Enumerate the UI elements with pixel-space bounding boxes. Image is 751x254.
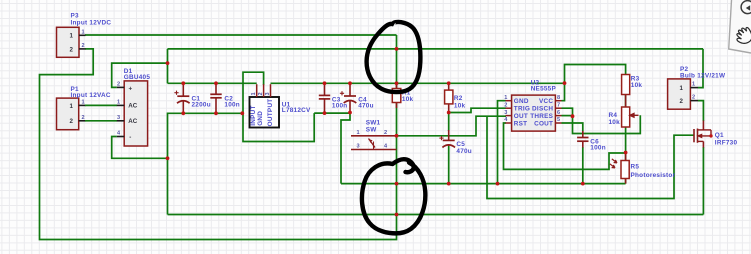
- U1 pin 3 OUTPUT stub: [270, 84, 272, 97]
- resistor R1 leads: [396, 83, 398, 108]
- wire input rail to U1: [168, 82, 257, 84]
- switch SW1 pole 3-4 line: [351, 149, 397, 151]
- P1 pin 2 stub: [79, 120, 86, 122]
- svg-text:AC: AC: [128, 118, 137, 125]
- svg-text:470u: 470u: [456, 148, 472, 155]
- junction D1 minus node: [166, 156, 170, 160]
- wire SW1 pin2 to 555 OUT: [397, 116, 507, 136]
- svg-text:7: 7: [557, 102, 560, 108]
- resistor R5 leads: [625, 153, 627, 184]
- junction U1 gnd rail: [240, 111, 244, 115]
- wire rail jog to R3: [565, 65, 626, 84]
- svg-text:NE555P: NE555P: [531, 85, 557, 92]
- U2 left pin 3 stub: [506, 115, 512, 117]
- icon circle with arrow: [741, 1, 751, 14]
- junction R2 bottom C5: [447, 111, 451, 115]
- capacitor C5 leads: [448, 130, 450, 146]
- D1 pin 1 stub: [117, 104, 124, 106]
- svg-text:1: 1: [692, 82, 695, 88]
- wire gnd rail C1 C2: [168, 113, 243, 214]
- svg-text:+: +: [129, 85, 133, 92]
- switch SW1 pole 1-2 line: [351, 135, 397, 137]
- wire P2 pin2 to Q1 drain: [698, 101, 703, 121]
- wire 555 OUT to Q1 gate: [487, 116, 694, 198]
- P1 pin 1 stub: [79, 104, 86, 106]
- Q1 drain stub: [698, 129, 712, 131]
- wire C6 bottom to rail A: [582, 147, 584, 184]
- svg-text:5: 5: [557, 117, 560, 123]
- wire C4 jog to rail A: [341, 113, 350, 184]
- wire P3 pin1 to R1 column: [85, 34, 397, 36]
- D1 pin 3 stub: [117, 120, 124, 122]
- hand-drawn circle annotation top: [367, 22, 421, 92]
- wire rail A: [341, 183, 626, 185]
- C2 plate lower: [210, 97, 221, 99]
- svg-text:2: 2: [70, 118, 74, 125]
- switch SW1 lever: [369, 139, 376, 148]
- C6 plate upper: [577, 137, 588, 139]
- junction rail A C6: [581, 182, 585, 186]
- svg-text:100n: 100n: [332, 103, 348, 110]
- svg-text:10k: 10k: [454, 102, 466, 109]
- svg-text:SW1: SW1: [366, 120, 381, 127]
- hand-drawn circle annotation bottom: [362, 159, 425, 233]
- svg-text:1: 1: [82, 100, 85, 106]
- wire U1 output rail: [271, 82, 565, 84]
- wire THRES stub: [562, 115, 573, 117]
- wire 555 GND to rail A: [498, 101, 507, 184]
- wire 12V top rail: [168, 48, 704, 50]
- junction SW1 pin2 R1: [395, 134, 399, 138]
- junction C4 top: [348, 81, 352, 85]
- junction C1 bottom: [181, 111, 185, 115]
- wire P1 pin1 to D1: [85, 104, 117, 106]
- svg-text:VCC: VCC: [539, 98, 553, 105]
- switch SW1 link dash: [373, 142, 375, 150]
- junction C1 top: [181, 81, 185, 85]
- wire R1 column vertical: [396, 35, 398, 215]
- C5 top plate: [443, 139, 455, 141]
- D1 pin 4 stub: [117, 136, 124, 138]
- junction R4 R5 RST: [624, 151, 628, 155]
- svg-text:OUT: OUT: [514, 113, 528, 120]
- C5 curved plate: [442, 145, 455, 148]
- wire VCC up to rail: [562, 83, 565, 101]
- svg-text:1: 1: [357, 130, 360, 136]
- svg-text:2: 2: [258, 92, 264, 95]
- svg-text:GND: GND: [514, 98, 529, 105]
- svg-text:Photoresistor: Photoresistor: [631, 172, 676, 179]
- junction C3 top: [323, 81, 327, 85]
- connector P3 body: [57, 27, 80, 57]
- C1 plus sign: [174, 92, 178, 94]
- resistor R2 leads: [448, 83, 450, 112]
- svg-text:1: 1: [117, 100, 120, 106]
- capacitor C6 leads: [582, 131, 584, 148]
- svg-text:IRF730: IRF730: [715, 139, 738, 146]
- Q1 source stub: [698, 140, 704, 142]
- wire rail C: [168, 214, 704, 216]
- Q1 bulk drop: [710, 130, 712, 136]
- svg-text:R5: R5: [631, 163, 640, 170]
- transistor Q1 gate bar: [693, 129, 695, 142]
- wire D1 minus to gnd node: [112, 137, 168, 159]
- svg-text:SW: SW: [366, 127, 378, 134]
- P3 pin 1 stub: [79, 34, 86, 36]
- U1 pin 2 GND stub: [263, 84, 265, 97]
- P2 pin 1 stub: [690, 87, 698, 89]
- svg-text:Bulb 12V/21W: Bulb 12V/21W: [680, 72, 726, 79]
- wire C5 bottom to rail A: [448, 146, 450, 184]
- C6 plate lower: [577, 140, 588, 142]
- svg-text:100n: 100n: [224, 102, 240, 109]
- svg-text:2: 2: [680, 98, 684, 105]
- svg-text:TRIG: TRIG: [514, 106, 530, 113]
- wire U1 gnd loop under box: [243, 72, 314, 141]
- C1 top plate: [177, 95, 189, 97]
- svg-text:COUT: COUT: [534, 120, 553, 127]
- svg-text:8: 8: [557, 95, 560, 101]
- svg-text:P3: P3: [71, 13, 80, 20]
- svg-text:3: 3: [504, 110, 507, 116]
- wire P1 pin2 to D1: [85, 120, 117, 122]
- Q1 bulk junction: [709, 134, 712, 137]
- C4 plus sign vertical: [341, 91, 343, 95]
- C3 plate upper: [319, 94, 330, 96]
- Q1 channel bar: [697, 129, 699, 143]
- P2 pin 2 stub: [690, 100, 698, 102]
- Q1 drain lead: [702, 121, 704, 130]
- svg-text:3: 3: [357, 144, 360, 150]
- wire R2 bottom to TRIG: [449, 108, 506, 112]
- U2 right pin 8 stub: [555, 100, 561, 102]
- wire DISCH to THRES node: [562, 108, 573, 116]
- toolbar panel top right: [729, 0, 751, 53]
- svg-text:2: 2: [82, 43, 85, 49]
- resistor R3 body: [622, 75, 630, 95]
- C5 plus sign: [439, 137, 443, 139]
- svg-text:2: 2: [504, 102, 507, 108]
- wire THRES node to R4 wiper: [573, 115, 641, 133]
- svg-text:THRES: THRES: [530, 113, 553, 120]
- U1 pin 1 INPUT stub: [256, 84, 258, 97]
- C3 plate lower: [319, 98, 330, 100]
- wire RST to R5 top: [504, 123, 626, 169]
- switch SW1 lever arrow: [369, 139, 373, 143]
- junction C4 bottom: [348, 111, 352, 115]
- Q1 bulk line with arrow: [698, 135, 712, 138]
- resistor R3 leads: [625, 95, 627, 108]
- junction rail C x396: [395, 213, 399, 217]
- resistor R2 body: [445, 90, 453, 104]
- svg-text:Q1: Q1: [715, 132, 724, 139]
- svg-text:AC: AC: [128, 103, 137, 110]
- junction rail A x396: [395, 182, 399, 186]
- capacitor C1 leads: [182, 83, 184, 113]
- U2 right pin 5 stub: [555, 122, 561, 124]
- wire Q1 source to rail C: [702, 147, 704, 215]
- svg-text:2: 2: [692, 95, 695, 101]
- svg-text:GND: GND: [257, 111, 264, 126]
- wire P3 pin2 big loop: [40, 49, 397, 240]
- icon hand pan tool: [733, 25, 751, 47]
- C4 plus sign: [340, 92, 344, 94]
- svg-text:DISCH: DISCH: [532, 106, 553, 113]
- C4 top plate: [344, 95, 356, 97]
- junction R2 top: [447, 81, 451, 85]
- C5 plus sign vertical: [441, 136, 443, 140]
- svg-text:100n: 100n: [590, 145, 606, 152]
- svg-text:1: 1: [680, 85, 684, 92]
- timer IC U2 body: [512, 95, 556, 131]
- svg-text:1: 1: [504, 95, 507, 101]
- D1 pin 2 stub: [117, 86, 124, 88]
- R5 light arrow upper: [612, 159, 617, 163]
- svg-text:2: 2: [117, 82, 120, 88]
- R4 wiper arrow: [630, 113, 639, 117]
- junction rail A C5: [447, 182, 451, 186]
- svg-text:10k: 10k: [402, 96, 414, 103]
- svg-text:-: -: [129, 134, 131, 141]
- U2 left pin 2 stub: [506, 107, 512, 109]
- wire R3 R4 R5 column: [625, 75, 627, 184]
- junction C3 bottom: [323, 111, 327, 115]
- svg-text:GBU405: GBU405: [124, 74, 151, 81]
- wire node x167 drop: [167, 49, 169, 83]
- bridge rectifier D1 body: [124, 81, 147, 146]
- U2 left pin 4 stub: [506, 122, 512, 124]
- svg-text:1: 1: [70, 33, 74, 40]
- resistor R1 body: [392, 89, 401, 103]
- C1 curved plate: [177, 101, 190, 104]
- capacitor C2 leads: [215, 83, 217, 113]
- svg-text:R2: R2: [454, 95, 463, 102]
- wire D1 plus to node: [112, 63, 168, 87]
- svg-text:Input 12VDC: Input 12VDC: [71, 20, 112, 27]
- junction VCC rail: [563, 81, 567, 85]
- junction C2 top: [214, 81, 218, 85]
- capacitor C3 leads: [324, 83, 326, 113]
- C2 plate upper: [210, 93, 221, 95]
- photoresistor R5 body: [621, 161, 629, 179]
- R5 light arrow lower: [610, 164, 615, 168]
- wire gnd rail C3 C4: [314, 112, 350, 114]
- svg-text:2: 2: [384, 130, 387, 136]
- svg-text:3: 3: [117, 115, 120, 121]
- svg-text:3: 3: [265, 92, 271, 95]
- svg-text:6: 6: [557, 110, 560, 116]
- C4 curved plate: [344, 101, 357, 104]
- wire top rail down to P2 pin1: [698, 49, 703, 88]
- junction R1 top: [395, 81, 399, 85]
- C1 plus sign vertical: [176, 91, 178, 95]
- svg-text:Input 12VAC: Input 12VAC: [71, 92, 111, 99]
- wire COUT to C6 top: [562, 123, 583, 132]
- svg-text:2: 2: [70, 46, 74, 53]
- junction P3 wire x396 rail49: [395, 47, 399, 51]
- svg-text:2200u: 2200u: [192, 102, 211, 109]
- svg-text:OUTPUT: OUTPUT: [267, 99, 274, 127]
- svg-text:INPUT: INPUT: [250, 105, 257, 125]
- svg-text:470u: 470u: [358, 103, 374, 110]
- junction D1 plus node: [166, 61, 170, 65]
- junction C2 bottom: [214, 111, 218, 115]
- connector P2 body: [668, 79, 691, 109]
- junction THRES DISCH: [571, 114, 575, 118]
- U2 right pin 6 stub: [555, 115, 561, 117]
- wire C5 top lead: [448, 113, 450, 132]
- U2 left pin 1 stub: [506, 100, 512, 102]
- Q1 source lead: [702, 141, 704, 147]
- svg-text:L7812CV: L7812CV: [282, 107, 311, 114]
- svg-text:1: 1: [82, 30, 85, 36]
- U2 right pin 7 stub: [555, 107, 561, 109]
- P3 pin 2 stub: [79, 48, 86, 50]
- svg-text:10k: 10k: [631, 82, 643, 89]
- junction rail A gnd555: [496, 182, 500, 186]
- svg-text:RST: RST: [514, 120, 528, 127]
- svg-text:2: 2: [82, 115, 85, 121]
- svg-text:10k: 10k: [609, 119, 621, 126]
- svg-text:1: 1: [251, 92, 257, 95]
- svg-text:1: 1: [70, 103, 74, 110]
- connector P1 body: [57, 98, 79, 130]
- voltage regulator U1 body: [250, 97, 280, 128]
- potentiometer R4 body: [622, 107, 630, 127]
- capacitor C4 leads: [349, 83, 351, 112]
